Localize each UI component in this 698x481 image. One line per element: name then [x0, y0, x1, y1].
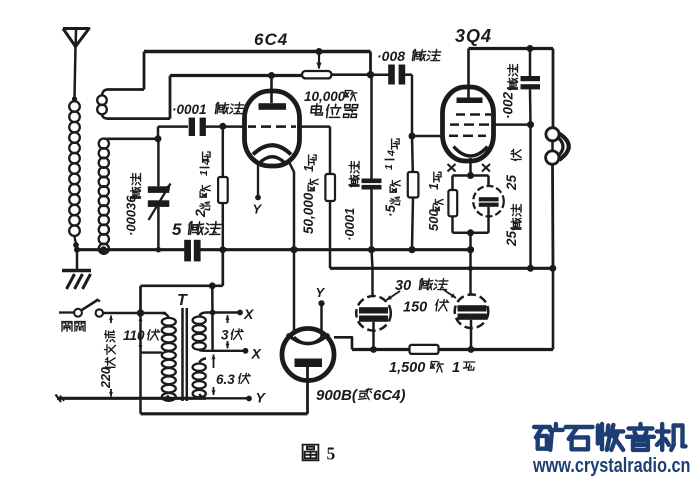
svg-text:30: 30	[395, 278, 411, 294]
svg-text:25: 25	[504, 230, 519, 247]
wire 6C4 filament to rail	[290, 163, 295, 250]
wire top rail	[144, 50, 371, 53]
tuned coil L2	[99, 139, 109, 149]
svg-text:6C4): 6C4)	[373, 387, 406, 404]
wire 6C4 grid to R2	[297, 125, 330, 128]
capacitor C6 25uF electrolytic	[487, 176, 490, 187]
switch SW	[59, 311, 74, 313]
wire chassis rail left	[77, 248, 185, 251]
svg-text:2: 2	[192, 209, 208, 218]
svg-text:3Q4: 3Q4	[455, 26, 492, 46]
svg-text:5: 5	[327, 444, 336, 464]
svg-text:110: 110	[123, 328, 145, 343]
label RP 电位器	[316, 104, 317, 115]
svg-text:X: X	[251, 346, 263, 362]
resistor R3 .5Mohm	[411, 136, 414, 172]
wire rail to 900B	[293, 250, 296, 332]
wire C- bias	[221, 250, 224, 286]
svg-text:220: 220	[99, 367, 113, 389]
wire tickler bottom to plate wire	[107, 117, 170, 120]
terminal X1	[206, 311, 238, 313]
resistor R1 2Mohm grid leak	[222, 127, 225, 177]
wire 6C4 plate rail	[170, 74, 302, 77]
svg-text:1: 1	[452, 360, 460, 376]
transformer secondary 6.3V	[193, 364, 206, 371]
tickler coil L3	[97, 95, 107, 105]
dim arrows 220V AC	[110, 316, 112, 324]
dim arrows 6.3V	[213, 355, 215, 369]
resistor R5 1500 ohm	[352, 348, 410, 351]
ground node	[74, 247, 80, 253]
svg-text:Y: Y	[316, 285, 326, 300]
capacitor C7 30uF	[372, 250, 373, 269]
wire B+ rail	[330, 267, 553, 270]
node coupling	[367, 71, 374, 78]
node 3Q4 grid	[409, 133, 416, 140]
node grid leak top	[219, 123, 226, 130]
3Q4 filament stem	[469, 158, 472, 176]
wire pot to C3 node	[332, 73, 371, 76]
svg-text:·0001: ·0001	[342, 208, 357, 241]
svg-text:1: 1	[198, 170, 210, 176]
wire 3Q4 screen to C5 node	[493, 123, 531, 126]
phones jack	[552, 49, 555, 128]
terminal X2	[206, 350, 243, 352]
capacitor C9 5uF	[184, 240, 191, 262]
6C4 filament	[253, 145, 291, 154]
node primary top	[137, 309, 144, 316]
svg-text:150: 150	[403, 300, 427, 316]
node antenna-coil junction	[72, 96, 77, 101]
resistor R4 500 ohm	[451, 176, 454, 191]
label switch 開關	[61, 322, 63, 332]
svg-text:·5: ·5	[383, 205, 398, 217]
wire 900B to filter	[334, 337, 352, 349]
tube 900B envelope	[282, 329, 334, 381]
node grid-tank junction	[155, 135, 162, 142]
svg-text:·002: ·002	[501, 91, 516, 119]
node grid leak bottom	[219, 246, 226, 253]
svg-text:X: X	[243, 306, 255, 322]
node 6C4 plate tap	[268, 72, 275, 79]
svg-text:·008: ·008	[377, 48, 405, 64]
svg-text:www.crystalradio.cn: www.crystalradio.cn	[532, 455, 690, 477]
3Q4 grid dashes row3	[449, 135, 458, 138]
wire chassis rail	[199, 248, 474, 251]
antenna coil L1	[73, 99, 75, 102]
svg-text:Y: Y	[253, 202, 263, 217]
wire grid node to 6C4 grid	[223, 125, 245, 128]
transformer primary	[162, 318, 176, 326]
antenna	[63, 29, 89, 47]
svg-text:10,000: 10,000	[304, 89, 346, 104]
wire bias block bottom	[453, 232, 489, 235]
capacitor C5 .002uF	[527, 45, 534, 52]
wire 3Q4 grid	[412, 135, 444, 138]
3Q4 filament	[454, 147, 488, 157]
svg-text:25: 25	[504, 174, 519, 191]
svg-text:1: 1	[383, 164, 395, 170]
transformer secondary 3V	[193, 317, 206, 324]
wire L2 top to grid node	[108, 138, 158, 141]
potentiometer RP body	[302, 71, 332, 78]
svg-text:3: 3	[221, 328, 229, 343]
tube 6C4 envelope	[270, 76, 273, 104]
wire 3Q4 plate rail	[469, 47, 554, 50]
wire jack to filter bottom	[552, 268, 555, 349]
caption 圖5	[303, 444, 319, 446]
svg-text:T: T	[177, 292, 188, 309]
svg-text:5: 5	[172, 220, 182, 239]
svg-text:50,000: 50,000	[301, 192, 316, 234]
6C4 grid dashes	[248, 125, 256, 128]
wire primary tap line	[139, 313, 142, 414]
wire AC line bottom	[57, 397, 206, 400]
svg-text:1: 1	[427, 183, 441, 190]
900B filament	[287, 334, 329, 344]
6C4 plate	[259, 103, 287, 110]
capacitor C3 .008uF	[371, 73, 389, 76]
wire top rail drop	[369, 52, 372, 75]
svg-text:6C4: 6C4	[254, 30, 288, 49]
svg-text:·00036: ·00036	[124, 195, 139, 236]
terminal Y2	[206, 397, 247, 399]
wire bias block top	[453, 174, 489, 177]
transformer T core	[181, 308, 184, 401]
svg-text:Y: Y	[256, 390, 267, 406]
svg-text:·0001: ·0001	[172, 102, 207, 117]
3Q4 grid dashes row2	[450, 123, 459, 126]
resistor R2 50000 ohm	[325, 174, 335, 201]
capacitor C4 .0001uF	[370, 75, 373, 179]
900B plate	[295, 359, 323, 368]
capacitor C8 30uF	[469, 250, 472, 269]
capacitor C2 .0001uF grid	[157, 127, 160, 139]
dim arrows 3V	[227, 315, 229, 323]
potentiometer RP 10k wiper	[316, 48, 323, 55]
tube 3Q4 envelope	[443, 87, 494, 161]
variable capacitor C1 .00036uF	[157, 139, 160, 187]
ground	[76, 250, 79, 271]
svg-text:1,500: 1,500	[389, 360, 425, 376]
3Q4 plate	[457, 98, 483, 104]
wire B- return	[141, 412, 308, 415]
svg-text:900B(: 900B(	[316, 387, 359, 404]
3Q4 grid dashes row1	[456, 113, 465, 116]
svg-text:6.3: 6.3	[216, 372, 235, 387]
dim arrows 110V	[140, 317, 142, 326]
watermark 矿石收音机	[534, 425, 550, 429]
3Q4 filament pin marks x x	[448, 164, 456, 172]
svg-text:500: 500	[426, 209, 441, 231]
svg-text:4: 4	[386, 150, 398, 157]
wire tickler top to top rail	[107, 88, 144, 91]
6C4 filament pin Y	[257, 162, 259, 196]
